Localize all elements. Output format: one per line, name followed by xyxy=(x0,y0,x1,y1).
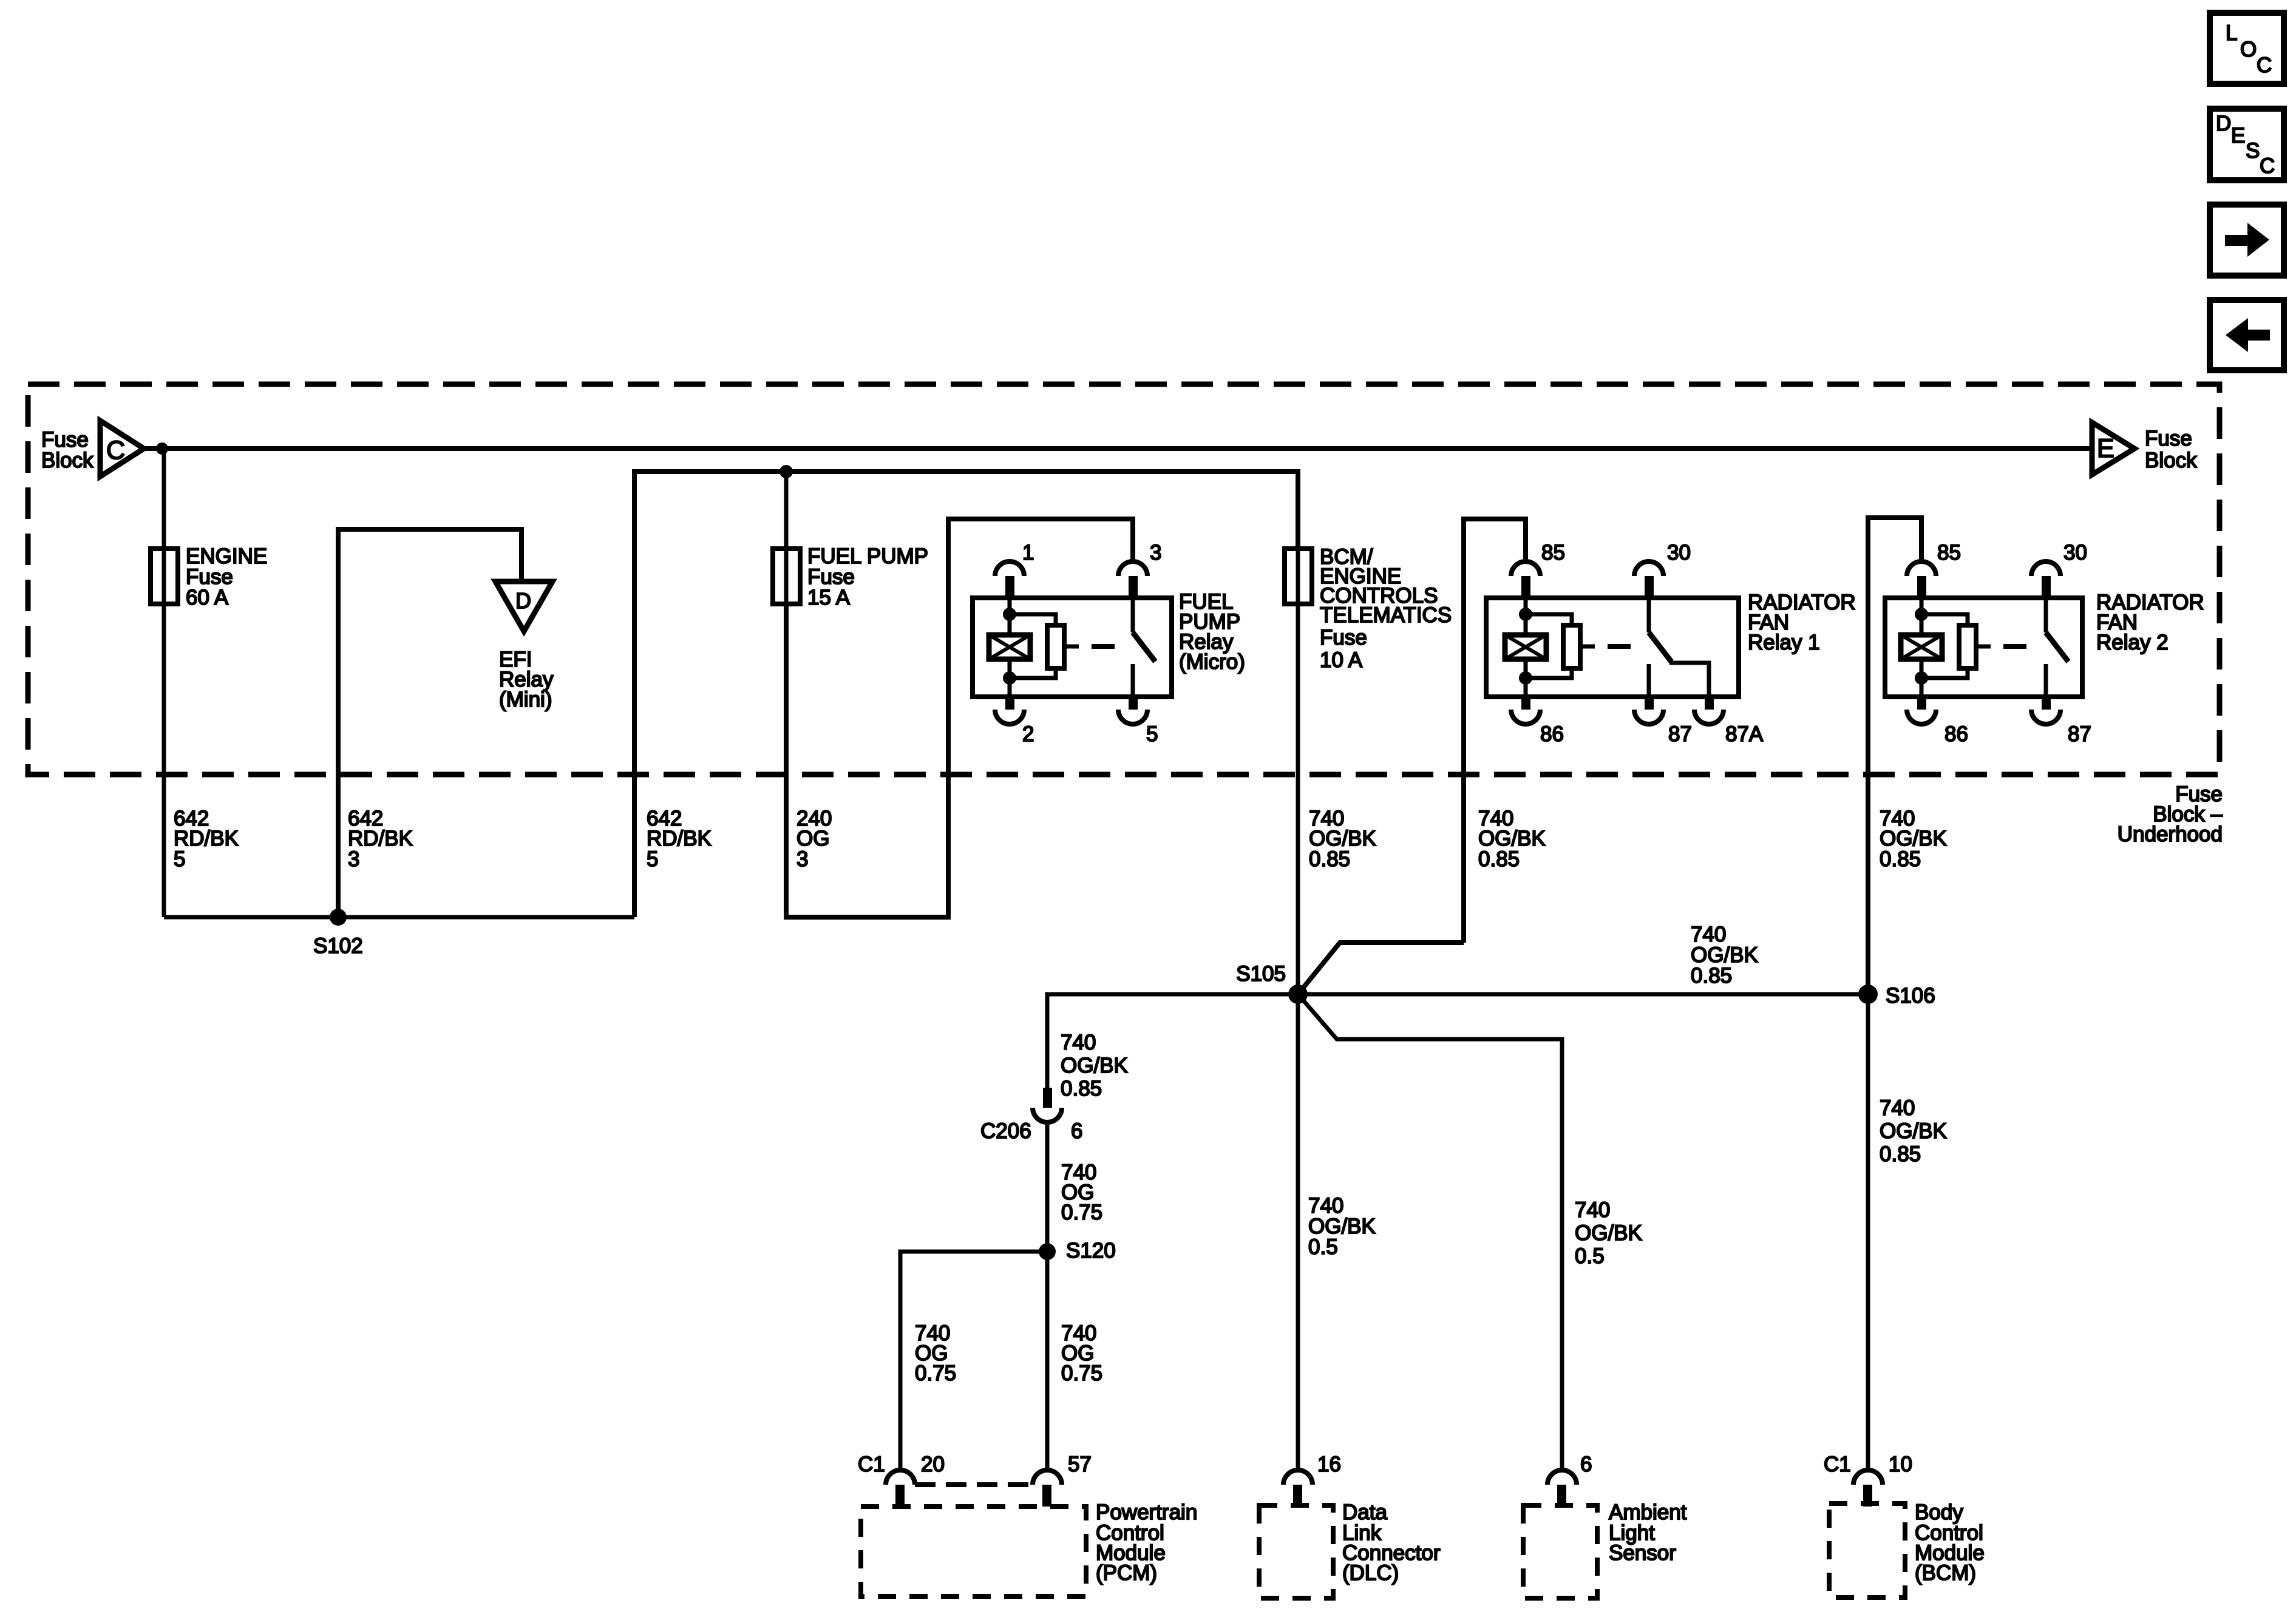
wire S105 down to DLC xyxy=(1296,994,1300,1471)
module Ambient Light Sensor dashed box xyxy=(1523,1505,1597,1598)
wire radiator fan relay 2 coil feed xyxy=(1868,518,1921,994)
wire top bus xyxy=(144,446,2092,451)
svg-text:Underhood: Underhood xyxy=(2118,822,2223,846)
pin 1 connector dome xyxy=(995,561,1024,576)
wire S106 down to BCM xyxy=(1866,994,1870,1471)
pin 87 connector bowl xyxy=(2042,697,2051,710)
svg-text:85: 85 xyxy=(1541,541,1565,564)
nav button DESC xyxy=(2210,109,2284,180)
svg-text:E: E xyxy=(2097,434,2114,463)
svg-text:20: 20 xyxy=(921,1453,945,1476)
wire EFI relay branch xyxy=(338,529,521,917)
label RADIATOR FAN Relay 2 xyxy=(2096,591,2204,654)
svg-text:1: 1 xyxy=(1022,541,1034,564)
svg-text:(DLC): (DLC) xyxy=(1342,1561,1399,1585)
label Data Link Connector (DLC) xyxy=(1342,1500,1441,1585)
switch common wire xyxy=(1647,598,1651,632)
label 740 OG/BK 0.85 (relay 2 feed) xyxy=(1880,807,1947,871)
svg-text:D: D xyxy=(515,588,531,613)
label Fuse Block - Underhood xyxy=(2118,782,2223,846)
svg-text:OG/BK: OG/BK xyxy=(1061,1054,1128,1077)
pin 86 connector bowl xyxy=(1917,697,1926,710)
svg-text:C: C xyxy=(106,436,125,465)
switch blade xyxy=(1133,632,1155,662)
label BCM/ENGINE CONTROLS TELEMATICS Fuse 10 A xyxy=(1320,545,1452,672)
svg-text:87A: 87A xyxy=(1725,722,1764,746)
resistor parallel loop xyxy=(1526,614,1595,678)
svg-text:30: 30 xyxy=(2063,541,2087,564)
label 740 OG/BK 0.85 (relay 1 feed) xyxy=(1478,807,1546,871)
label 740 OG 0.75 (PCM pin 57) xyxy=(1061,1321,1102,1385)
label Body Control Module (BCM) xyxy=(1915,1500,1985,1585)
label 740 OG/BK 0.5 (DLC drop) xyxy=(1308,1194,1376,1259)
svg-text:C206: C206 xyxy=(980,1119,1031,1143)
svg-text:Fuse: Fuse xyxy=(2145,427,2192,450)
label 740 OG 0.75 (C206 to S120) xyxy=(1061,1161,1102,1224)
wire S105 to S106 xyxy=(1298,992,1868,997)
svg-text:Block: Block xyxy=(41,449,93,472)
svg-text:10 A: 10 A xyxy=(1320,648,1363,672)
wire S105 left branch xyxy=(1047,994,1298,1088)
actuation dash xyxy=(1092,644,1115,649)
label 740 OG/BK 0.5 (ambient light sensor drop) xyxy=(1575,1198,1642,1268)
fuse ENGINE 60 A xyxy=(151,549,178,604)
fuse block underhood dashed boundary xyxy=(28,384,2220,775)
wire fuel pump fuse drop xyxy=(784,472,789,549)
pin 2 connector bowl xyxy=(1005,697,1014,710)
relay RADIATOR FAN Relay 1 xyxy=(1486,541,1764,746)
relay coil xyxy=(1901,635,1942,659)
label 740 OG/BK 0.85 (left branch) xyxy=(1061,1031,1128,1100)
switch blade xyxy=(2046,632,2068,662)
svg-text:S105: S105 xyxy=(1236,962,1286,986)
module ambient light sensor pin 6 xyxy=(1547,1453,1592,1507)
switch lower contact wire xyxy=(2044,664,2048,697)
svg-text:5: 5 xyxy=(647,847,658,871)
label 642 RD/BK 3 xyxy=(348,807,413,871)
node splice S105 xyxy=(1288,985,1308,1004)
svg-text:TELEMATICS: TELEMATICS xyxy=(1320,603,1452,627)
svg-text:740: 740 xyxy=(1880,1096,1915,1120)
svg-text:5: 5 xyxy=(1146,722,1158,746)
label EFI Relay (Mini) xyxy=(499,648,554,711)
svg-text:S120: S120 xyxy=(1066,1239,1116,1263)
svg-text:Block: Block xyxy=(2145,449,2197,472)
module BCM pin 10 xyxy=(1824,1453,1912,1507)
relay RADIATOR FAN Relay 2 xyxy=(1885,541,2091,746)
svg-text:85: 85 xyxy=(1937,541,1961,564)
svg-text:0.5: 0.5 xyxy=(1308,1235,1338,1259)
wire splice S102 bus xyxy=(164,915,634,920)
module Body Control Module (BCM) dashed box xyxy=(1829,1503,1905,1598)
pin 20 connector dome xyxy=(886,1470,915,1485)
wire S105 to relay 1 diagonal xyxy=(1298,943,1464,994)
actuation dash xyxy=(1608,644,1631,649)
svg-text:87: 87 xyxy=(2068,722,2091,746)
svg-text:(PCM): (PCM) xyxy=(1096,1561,1157,1585)
svg-text:0.85: 0.85 xyxy=(1061,1077,1102,1100)
wire S120 left branch to PCM pin 20 xyxy=(900,1252,1047,1471)
svg-text:60 A: 60 A xyxy=(186,586,229,609)
svg-text:Fuse: Fuse xyxy=(1320,626,1367,649)
actuation dash xyxy=(2003,644,2026,649)
svg-text:87: 87 xyxy=(1668,722,1692,746)
svg-text:0.75: 0.75 xyxy=(1061,1201,1102,1224)
svg-text:86: 86 xyxy=(1944,722,1968,746)
label 740 OG 0.75 (PCM pin 20) xyxy=(915,1321,956,1385)
svg-text:OG/BK: OG/BK xyxy=(1880,1119,1947,1143)
coil branch wire xyxy=(1008,598,1012,635)
label 642 RD/BK 5 (riser) xyxy=(647,807,712,871)
svg-text:C: C xyxy=(2260,154,2275,178)
label RADIATOR FAN Relay 1 xyxy=(1748,591,1856,654)
svg-text:0.85: 0.85 xyxy=(1478,847,1520,871)
svg-text:3: 3 xyxy=(796,847,808,871)
nav button LOC xyxy=(2210,13,2284,84)
svg-text:0.5: 0.5 xyxy=(1575,1244,1605,1268)
switch common wire xyxy=(1131,598,1135,632)
svg-text:0.85: 0.85 xyxy=(1691,964,1732,988)
svg-text:L: L xyxy=(2226,21,2237,45)
label FUEL PUMP Relay (Micro) xyxy=(1179,590,1245,674)
switch common wire xyxy=(2044,598,2048,632)
svg-text:6: 6 xyxy=(1071,1119,1082,1143)
svg-text:(BCM): (BCM) xyxy=(1915,1561,1976,1585)
relay body box xyxy=(1486,598,1739,697)
svg-text:6: 6 xyxy=(1580,1453,1592,1476)
module DLC pin 16 xyxy=(1283,1453,1341,1507)
wire engine fuse output xyxy=(162,604,166,917)
nav button next arrow xyxy=(2210,205,2284,276)
module Data Link Connector dashed box xyxy=(1259,1505,1333,1598)
svg-text:C1: C1 xyxy=(858,1453,885,1476)
switch lower contact wire xyxy=(1647,664,1651,697)
svg-text:86: 86 xyxy=(1540,722,1564,746)
wire second bus (engine fuse output feed) xyxy=(634,472,1298,917)
pin 30 connector dome xyxy=(2031,561,2060,576)
label 740 OG/BK 0.85 (S105-S106 run) xyxy=(1691,923,1758,988)
pin 87A connector bowl xyxy=(1705,697,1714,710)
connector triangle D (EFI relay) xyxy=(495,581,552,631)
connector triangle C (Fuse Block feed) xyxy=(100,421,144,476)
node junction on top bus xyxy=(156,442,168,455)
svg-text:0.75: 0.75 xyxy=(915,1361,956,1385)
relay coil xyxy=(989,635,1030,659)
svg-text:57: 57 xyxy=(1068,1453,1092,1476)
svg-text:3: 3 xyxy=(1150,541,1161,564)
module Powertrain Control Module (PCM) dashed box xyxy=(861,1507,1086,1596)
svg-text:S102: S102 xyxy=(313,934,363,958)
svg-text:Sensor: Sensor xyxy=(1609,1541,1676,1565)
coil branch wire xyxy=(1524,598,1528,635)
label Ambient Light Sensor xyxy=(1609,1500,1687,1565)
wire engine fuse feed xyxy=(162,449,166,549)
module PCM pins xyxy=(858,1453,1092,1507)
connector C206 inline xyxy=(1033,1088,1062,1122)
svg-text:Relay 2: Relay 2 xyxy=(2096,631,2169,654)
coil branch wire xyxy=(1920,598,1924,635)
svg-text:(Micro): (Micro) xyxy=(1179,650,1245,674)
svg-text:3: 3 xyxy=(348,847,359,871)
svg-text:(Mini): (Mini) xyxy=(499,688,552,711)
switch lower contact wire xyxy=(1131,664,1135,697)
pin 85 connector dome xyxy=(1511,561,1540,576)
svg-text:10: 10 xyxy=(1889,1453,1912,1476)
wire C206 to S120 xyxy=(1045,1121,1050,1252)
resistor parallel loop xyxy=(1010,614,1079,678)
label Fuse Block (right) xyxy=(2145,427,2197,472)
relay FUEL PUMP Relay (Micro) xyxy=(973,541,1172,746)
svg-text:S106: S106 xyxy=(1886,984,1935,1008)
svg-text:15 A: 15 A xyxy=(807,586,851,609)
svg-text:16: 16 xyxy=(1317,1453,1341,1476)
resistor parallel loop xyxy=(1921,614,1991,678)
svg-text:C1: C1 xyxy=(1824,1453,1851,1476)
relay body box xyxy=(1885,598,2082,697)
wire radiator fan relay 1 coil feed xyxy=(1464,519,1526,943)
pin 87 connector bowl xyxy=(1645,697,1654,710)
node splice S106 xyxy=(1858,985,1878,1004)
relay coil xyxy=(1505,635,1546,659)
node splice S102 xyxy=(330,909,347,926)
switch blade xyxy=(1649,632,1671,662)
svg-text:0.85: 0.85 xyxy=(1309,847,1350,871)
label Fuse Block (left) xyxy=(41,428,93,472)
svg-text:0.75: 0.75 xyxy=(1061,1361,1102,1385)
pin 5 connector bowl xyxy=(1129,697,1138,710)
fuse BCM/ENGINE CONTROLS TELEMATICS 10 A xyxy=(1285,549,1312,604)
svg-text:740: 740 xyxy=(1061,1031,1096,1054)
connector triangle E (Fuse Block) xyxy=(2092,422,2135,475)
pin 57 connector dome xyxy=(1033,1470,1062,1485)
svg-text:OG/BK: OG/BK xyxy=(1575,1221,1642,1245)
svg-text:S: S xyxy=(2246,139,2260,163)
svg-text:0.85: 0.85 xyxy=(1880,847,1921,871)
node junction feeding fuel pump fuse xyxy=(779,465,793,478)
fuse FUEL PUMP 15 A xyxy=(773,549,800,604)
switch 87A link xyxy=(1669,663,1709,697)
dashed internal link pin 20 to 57 xyxy=(915,1482,1033,1487)
svg-text:740: 740 xyxy=(1575,1198,1610,1222)
nav button back arrow xyxy=(2210,300,2284,370)
wire S105 to ambient light sensor diagonal xyxy=(1298,994,1562,1471)
svg-text:30: 30 xyxy=(1667,541,1691,564)
svg-text:Relay 1: Relay 1 xyxy=(1748,631,1820,654)
svg-text:C: C xyxy=(2257,53,2272,77)
svg-text:E: E xyxy=(2231,124,2245,147)
wire fuel pump fuse output loop to relay pin 3 xyxy=(786,519,1133,917)
label 240 OG 3 xyxy=(796,807,832,871)
svg-text:O: O xyxy=(2240,38,2257,61)
pin 30 connector dome xyxy=(1634,561,1663,576)
label 740 OG/BK 0.85 (BCM fuse output) xyxy=(1309,807,1376,871)
svg-text:2: 2 xyxy=(1022,722,1034,746)
wire S120 down to PCM pin 57 xyxy=(1045,1252,1050,1471)
svg-text:5: 5 xyxy=(174,847,185,871)
pin 86 connector bowl xyxy=(1521,697,1530,710)
node splice S120 xyxy=(1039,1243,1056,1260)
label 740 OG/BK 0.85 (S106 to BCM) xyxy=(1880,1096,1947,1166)
svg-text:D: D xyxy=(2216,112,2231,135)
relay body box xyxy=(973,598,1172,697)
label ENGINE Fuse 60 A xyxy=(186,544,267,609)
label 642 RD/BK 5 (engine fuse) xyxy=(174,807,239,871)
label Powertrain Control Module (PCM) xyxy=(1096,1500,1197,1585)
pin 85 connector dome xyxy=(1907,561,1936,576)
pin 3 connector dome xyxy=(1118,561,1147,576)
svg-text:0.85: 0.85 xyxy=(1880,1142,1921,1166)
label FUEL PUMP Fuse 15 A xyxy=(807,544,928,609)
wire BCM fuse output down to S105 xyxy=(1296,604,1300,994)
